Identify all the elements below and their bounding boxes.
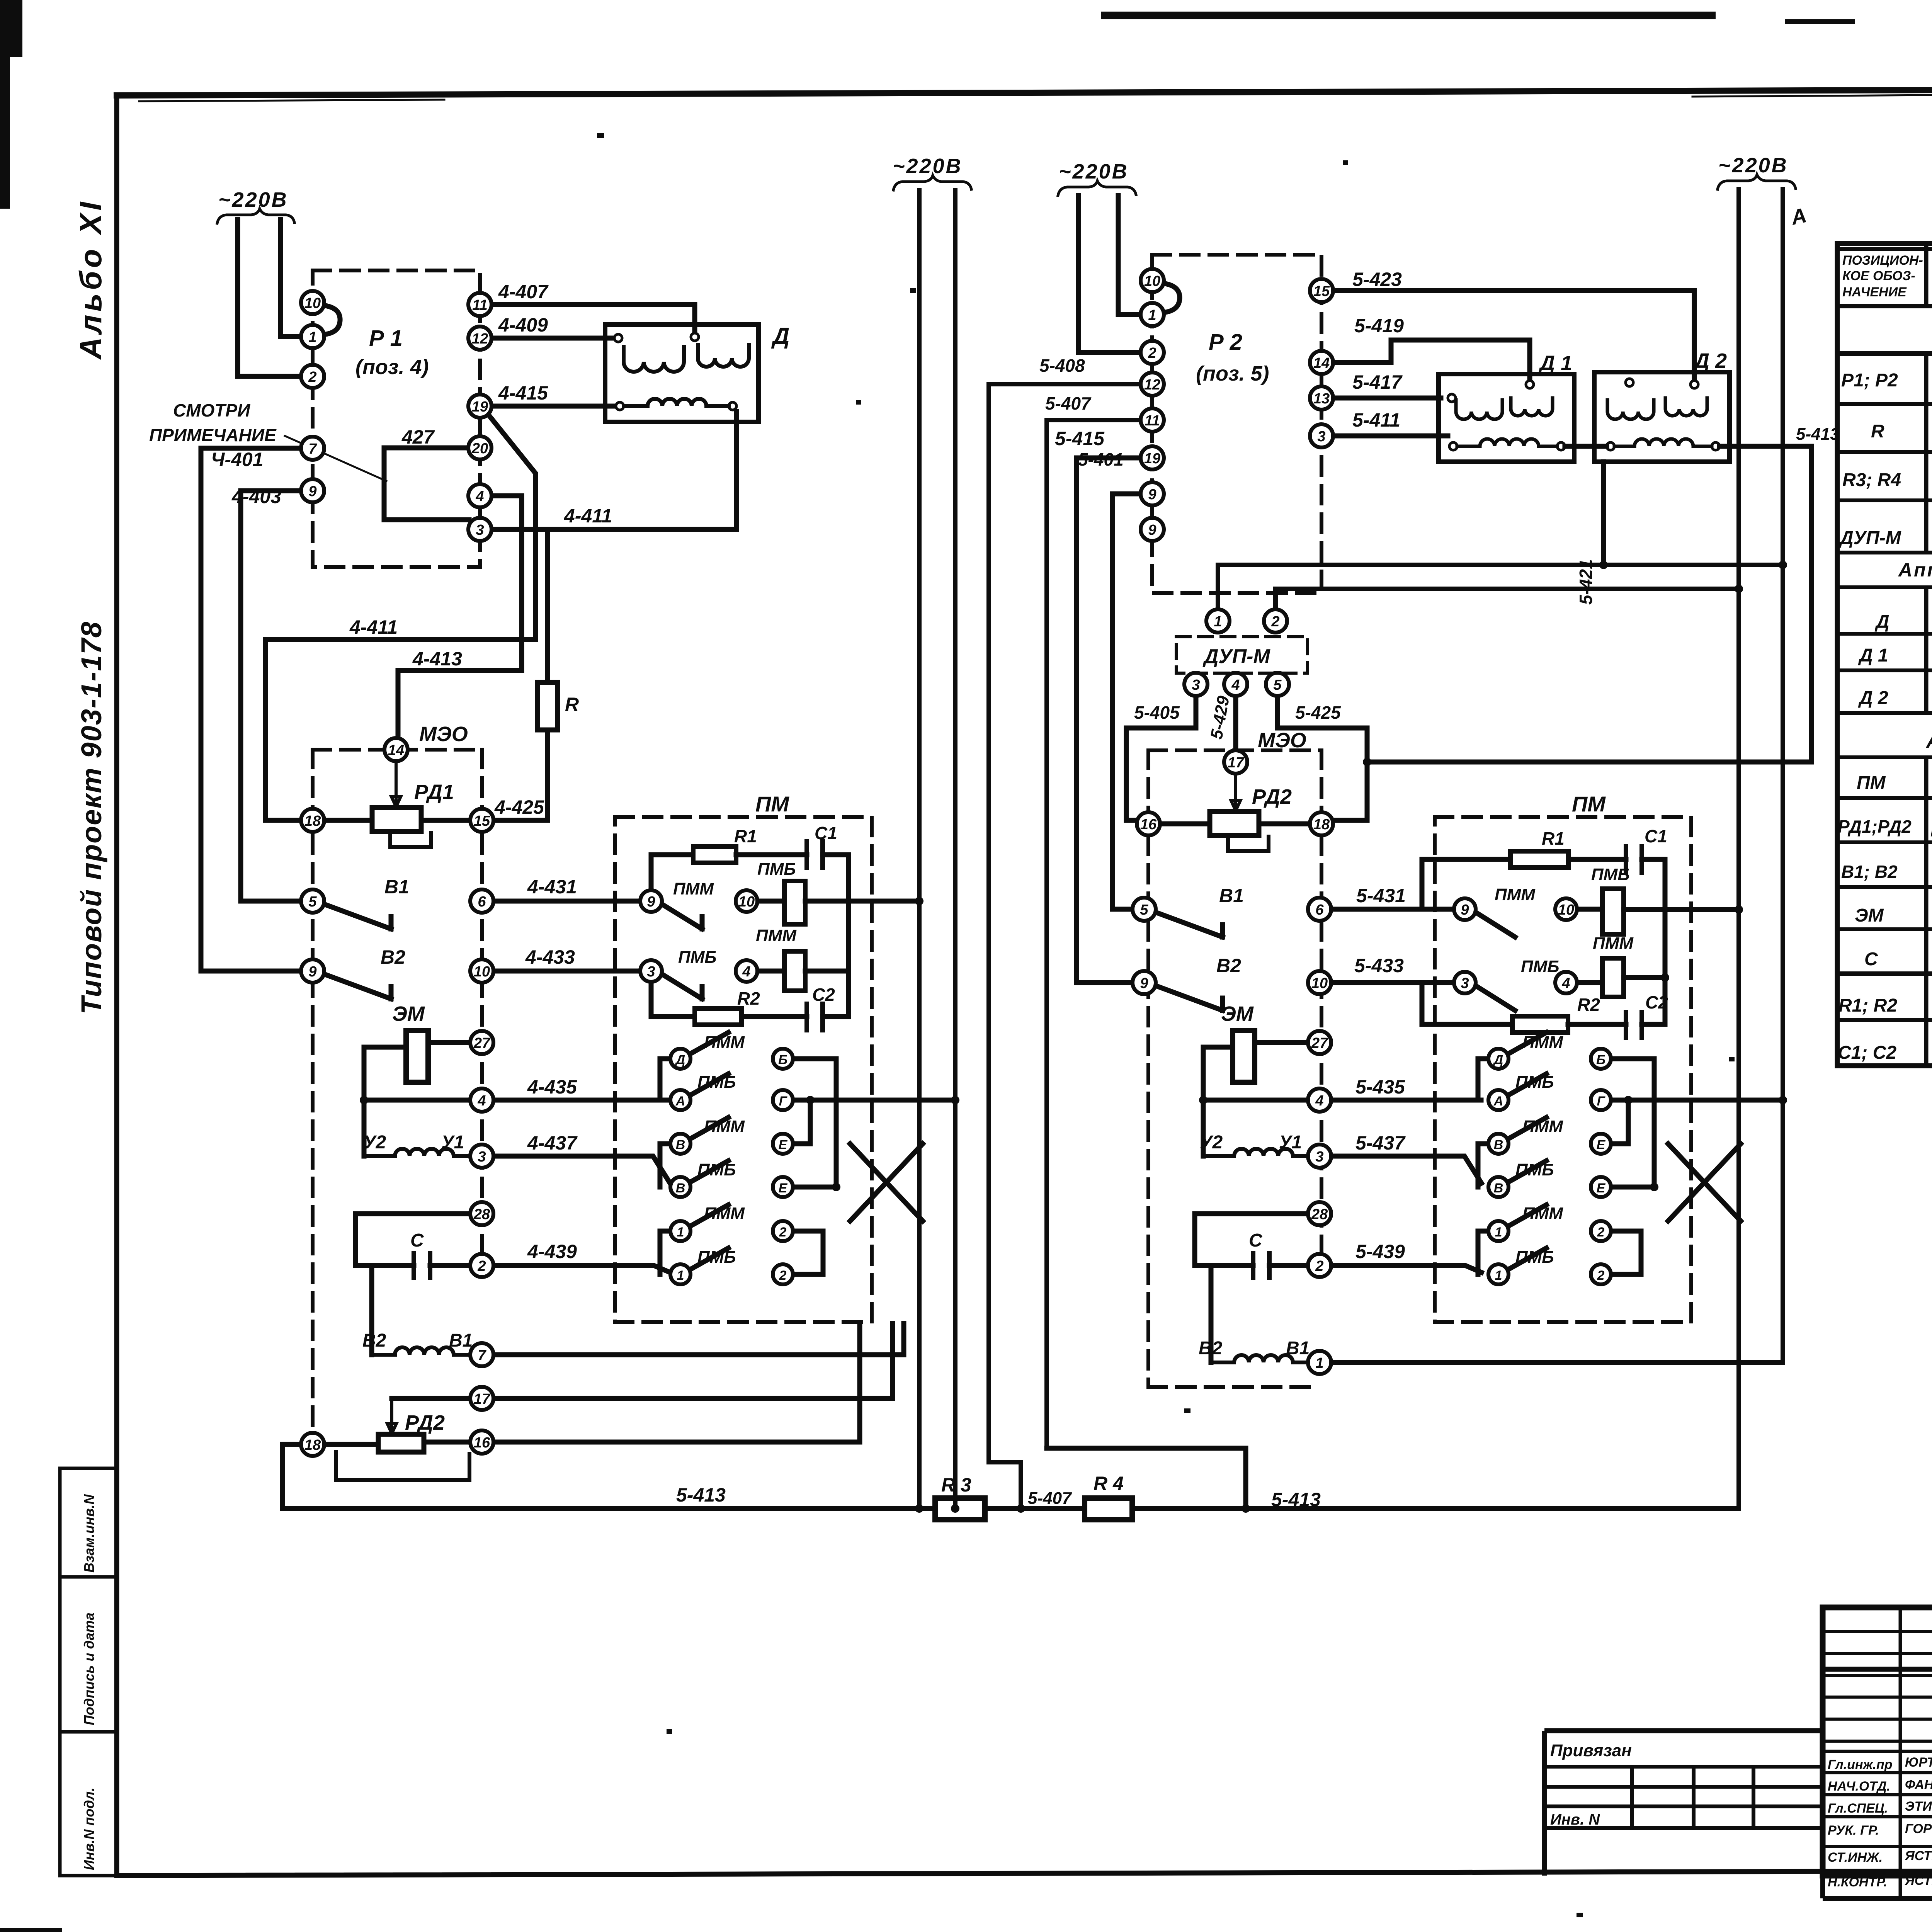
svg-text:ПМБ: ПМБ [697, 1073, 736, 1092]
svg-text:В1: В1 [384, 876, 409, 898]
svg-text:5-411: 5-411 [1352, 409, 1400, 431]
wire C2 right [823, 1014, 849, 1019]
wire 4-409 [492, 336, 615, 341]
svg-text:9: 9 [308, 964, 316, 980]
wire E2 right [793, 1185, 836, 1190]
wire block2 right [805, 969, 849, 974]
svg-text:5-421: 5-421 [1576, 559, 1596, 605]
junction EM loop / 4-435 [360, 1096, 368, 1104]
junction 5-421 [1599, 561, 1608, 569]
coil U2-U1 [364, 1149, 470, 1156]
svg-text:Аппаратура по месту: Аппаратура по месту [1925, 730, 1932, 752]
wire terminal 16 row [493, 1323, 860, 1442]
svg-text:10: 10 [474, 964, 490, 980]
terminal 5 [301, 889, 324, 913]
signature rows [1823, 1751, 1932, 1847]
D bottom coil [624, 399, 729, 406]
svg-text:Альбо XI: Альбо XI [73, 199, 108, 360]
contact row 1-2 upper blade [690, 1205, 728, 1226]
svg-text:1: 1 [1495, 1268, 1502, 1283]
contact E1 [773, 1134, 793, 1154]
switch V1r blade [1156, 912, 1223, 937]
contact E2 [773, 1177, 793, 1197]
coil U2-U1 right [1203, 1149, 1308, 1156]
left 220V supply label [218, 188, 288, 211]
svg-text:9: 9 [308, 483, 316, 500]
svg-text:НАЧЕНИЕ: НАЧЕНИЕ [1842, 285, 1907, 299]
wire contact 10 to block [757, 899, 784, 904]
junction block2r [1661, 973, 1669, 982]
terminal 3r [1308, 1145, 1331, 1168]
svg-text:14: 14 [1313, 355, 1330, 371]
terminal 9b [301, 959, 324, 983]
starter PM right dashed box [1435, 817, 1691, 1322]
RD2r wiper wire [1231, 774, 1240, 811]
svg-text:Д: Д [1874, 612, 1889, 632]
wire 1u to 1l [660, 1231, 670, 1274]
MEO dashed top [313, 748, 482, 752]
regulator P2 dashed box [1152, 255, 1321, 593]
coil V2-V1 left stub [355, 1265, 372, 1355]
svg-text:ЯСТРЕБОВА: ЯСТРЕБОВА [1905, 1873, 1932, 1888]
svg-text:10: 10 [1311, 975, 1328, 992]
P2 220V brace [1058, 181, 1136, 196]
svg-text:1: 1 [677, 1225, 684, 1240]
svg-text:4-439: 4-439 [527, 1241, 577, 1262]
terminal 4b [470, 1088, 493, 1112]
wire contact 4 to block [759, 969, 784, 974]
svg-text:3: 3 [478, 1149, 486, 1165]
wire Br right [1611, 1059, 1654, 1187]
wire 4-401 [201, 448, 301, 971]
junction bus B [1779, 561, 1787, 569]
wire 220V to terminal 1 of P2 [1118, 196, 1141, 315]
wire 4-439 right [493, 1265, 670, 1272]
svg-text:6: 6 [1315, 902, 1324, 918]
contact 2lr [1591, 1264, 1611, 1284]
wire 5-439 right [1331, 1265, 1481, 1272]
svg-text:НАЧ.ОТД.: НАЧ.ОТД. [1828, 1779, 1890, 1794]
capacitor C1 right [1626, 846, 1642, 872]
wire 2u right tie [793, 1231, 823, 1274]
svg-text:5-425: 5-425 [1295, 702, 1341, 723]
svg-text:28: 28 [1311, 1206, 1328, 1223]
svg-text:ПММ: ПММ [1522, 1117, 1563, 1136]
terminal 10b [470, 959, 493, 983]
contact V1 [670, 1134, 690, 1154]
contact 1l [670, 1264, 690, 1284]
wire 5-435 right [1331, 1098, 1481, 1103]
svg-text:С1: С1 [1645, 826, 1667, 846]
terminal 6 [470, 889, 493, 913]
position indicator DUP-M dashed box [1176, 637, 1308, 673]
wire 2ur right [1611, 1231, 1641, 1274]
right 220V supply label [1718, 154, 1788, 177]
svg-text:5-415: 5-415 [1055, 428, 1105, 449]
svg-text:10: 10 [1144, 273, 1160, 289]
bus 220V mid right [953, 190, 957, 1509]
junction B-E2 tie [832, 1183, 840, 1191]
PM terminal 10 [736, 890, 757, 912]
terminal 3 [468, 518, 492, 541]
terminal 1 P2 [1141, 303, 1164, 326]
wire 5-433 [1331, 980, 1454, 985]
svg-text:2: 2 [1597, 1268, 1605, 1283]
terminal 5r [1133, 898, 1156, 921]
svg-text:5-413: 5-413 [1271, 1489, 1321, 1510]
wire contact 10r to block [1577, 907, 1602, 912]
wire block2r right [1624, 975, 1665, 980]
wire 5-411 [1333, 434, 1448, 439]
svg-text:ПММ: ПММ [756, 926, 797, 945]
wire RD2 to terminal 16 [424, 1440, 470, 1445]
terminal 1 [301, 325, 324, 348]
svg-text:3: 3 [1315, 1149, 1323, 1165]
D2 pin top left [1626, 379, 1633, 386]
svg-text:Аппаратура на стативе местных: Аппаратура на стативе местных приборов [1898, 559, 1932, 581]
potentiometer RD1 [372, 808, 421, 832]
capacitor C branch left [355, 1214, 470, 1265]
D pin left [614, 334, 622, 342]
wire 2lr right [1611, 1272, 1641, 1277]
PMr aux contact block 1 [1602, 889, 1624, 934]
terminal 16r [1137, 812, 1160, 835]
svg-text:В1: В1 [1219, 885, 1244, 906]
wire 4-435 left [364, 1098, 470, 1103]
resistor R2 right [1512, 1016, 1568, 1032]
svg-text:А: А [675, 1094, 685, 1109]
svg-text:ПМБ: ПМБ [1515, 1073, 1554, 1092]
contact row V-E1 blade [690, 1117, 728, 1139]
bus 220V right phase A [1736, 189, 1741, 589]
junction G-row bus [951, 1096, 959, 1104]
electromagnet EM coil body [406, 1031, 428, 1082]
wire 4-415 [492, 404, 617, 409]
right 220V brace [1718, 175, 1796, 189]
svg-text:5: 5 [1140, 902, 1148, 918]
wire terminal 18b to RD2 [324, 1442, 378, 1447]
D coil 2 [698, 345, 749, 367]
wire 5-407 riser [1047, 1448, 1246, 1509]
wire 5-413 from D2 [1367, 446, 1811, 762]
svg-text:ПМБ: ПМБ [757, 860, 796, 879]
svg-text:ЭТИНГЕН: ЭТИНГЕН [1905, 1799, 1932, 1814]
terminal 14 P2 [1310, 351, 1333, 374]
svg-text:А: А [1493, 1094, 1503, 1109]
contact V2 [670, 1177, 690, 1197]
wire C2r right [1642, 1022, 1665, 1027]
contact row 1-2 upper r blade [1508, 1205, 1546, 1226]
svg-text:ПММ: ПММ [1495, 885, 1536, 904]
contact E1r [1591, 1134, 1611, 1154]
PMr terminal 10 [1555, 898, 1577, 920]
svg-text:2: 2 [1271, 614, 1279, 630]
switch V2 blade [324, 974, 391, 999]
jumper terminal 10 to 1 of P2 [1163, 283, 1180, 313]
svg-text:СМОТРИ: СМОТРИ [173, 400, 250, 420]
wire terminal 16r to pot [1160, 821, 1210, 827]
bus 220V mid left [917, 190, 922, 1509]
svg-text:Д 1: Д 1 [1858, 645, 1888, 666]
svg-text:ПМБ: ПМБ [1515, 1248, 1554, 1267]
svg-text:5-423: 5-423 [1352, 269, 1402, 290]
node A label [1788, 204, 1809, 230]
contact Br [1591, 1049, 1611, 1069]
wire D to A row [660, 1059, 670, 1100]
junction 5-413 riser [1735, 585, 1743, 593]
wire pot to terminal 18r [1259, 821, 1310, 827]
svg-text:12: 12 [472, 331, 488, 347]
svg-text:13: 13 [1313, 391, 1330, 407]
DUP-M terminal 4 [1224, 673, 1247, 696]
svg-text:3: 3 [1192, 677, 1200, 693]
svg-text:ЭМ: ЭМ [1855, 905, 1884, 926]
terminal 1r [1308, 1351, 1331, 1374]
PM contact row 3-4 blade [662, 974, 702, 999]
svg-text:1: 1 [308, 329, 316, 345]
terminal 12 [468, 327, 492, 350]
svg-text:Д: Д [771, 323, 789, 349]
svg-text:ЯСТРЕБОВА: ЯСТРЕБОВА [1905, 1849, 1932, 1863]
left circuit terminal circles [301, 291, 793, 1456]
wire 4-407 [492, 304, 695, 332]
svg-text:27: 27 [473, 1035, 491, 1051]
svg-text:Подпись и дата: Подпись и дата [81, 1612, 97, 1725]
terminal 28 [470, 1202, 493, 1225]
svg-text:В: В [676, 1181, 685, 1196]
wire 5-423 [1333, 291, 1694, 381]
contact Dr [1488, 1049, 1509, 1069]
wire terminal 18b down [282, 1444, 301, 1509]
contact 1lr [1488, 1264, 1509, 1284]
resistor R1 right [1510, 851, 1568, 867]
svg-text:Гл.инж.пр: Гл.инж.пр [1828, 1757, 1893, 1772]
PM terminal 9 [640, 890, 662, 912]
resistor R4 [1085, 1498, 1132, 1520]
draft gauge D1 box [1439, 374, 1574, 462]
MEO dashed boundary left [311, 750, 315, 1445]
svg-text:У1: У1 [1279, 1132, 1302, 1153]
svg-text:ПММ: ПММ [704, 1117, 745, 1136]
svg-text:5-419: 5-419 [1354, 315, 1404, 337]
junction R4 right [1242, 1504, 1250, 1513]
svg-text:С: С [1249, 1230, 1263, 1251]
svg-text:Е: Е [779, 1181, 788, 1196]
contact row 1-2 lower r blade [1508, 1248, 1546, 1270]
junction EMr loop [1199, 1096, 1207, 1104]
wire Dr tie [1478, 1059, 1488, 1100]
svg-text:~220В: ~220В [1059, 160, 1129, 183]
svg-text:10: 10 [738, 894, 755, 910]
R2r branch stub [1422, 983, 1512, 1024]
svg-text:4-411: 4-411 [564, 505, 612, 527]
svg-text:R2: R2 [1577, 995, 1600, 1015]
wire 220V phase B to terminal 1 [281, 219, 301, 337]
svg-text:5-417: 5-417 [1352, 371, 1403, 393]
terminal 20 [468, 436, 492, 459]
bus 220V right phase B [1331, 189, 1783, 1362]
svg-text:9: 9 [647, 894, 655, 910]
svg-text:1: 1 [677, 1268, 684, 1283]
svg-text:РД1: РД1 [414, 781, 454, 804]
resistor R [537, 682, 558, 730]
svg-text:Е: Е [1597, 1181, 1606, 1196]
svg-text:С2: С2 [1645, 992, 1668, 1012]
terminal 14 [384, 738, 408, 761]
svg-text:5-439: 5-439 [1355, 1241, 1405, 1262]
terminal 19 [468, 395, 492, 418]
svg-text:5: 5 [1273, 677, 1282, 693]
svg-text:ПМБ: ПМБ [1515, 1160, 1554, 1179]
right tie [846, 855, 851, 1017]
D1 coil 2 [1511, 398, 1553, 416]
wire 4-437 right [493, 1156, 670, 1183]
svg-text:4-431: 4-431 [527, 876, 577, 898]
right circuit terminal circles [1133, 269, 1611, 1374]
D coil 1 [624, 347, 684, 372]
svg-text:1: 1 [1495, 1225, 1502, 1240]
svg-text:ПММ: ПММ [1522, 1204, 1563, 1223]
svg-text:ПММ: ПММ [704, 1033, 745, 1052]
D1 coil 1 [1456, 400, 1502, 419]
svg-text:ГОРНОСТАЕВ: ГОРНОСТАЕВ [1905, 1821, 1932, 1836]
wire 5-415 [1077, 458, 1141, 983]
svg-text:Г: Г [1597, 1094, 1606, 1109]
contact V2r [1488, 1177, 1509, 1197]
svg-text:18: 18 [304, 813, 321, 829]
wire terminal 17 row [392, 1323, 893, 1398]
terminal 10r [1308, 971, 1331, 994]
svg-text:Е: Е [779, 1138, 788, 1152]
wire 5-435 left [1203, 1098, 1308, 1103]
potentiometer RD2 right [1210, 811, 1259, 835]
DUP-M terminal 1 [1206, 609, 1230, 633]
D pin top center [691, 333, 699, 341]
wire 4-425 [493, 818, 548, 823]
svg-text:В1: В1 [1286, 1338, 1310, 1359]
tie C1r-C2r [1663, 859, 1668, 1024]
capacitor Cr wire right [1269, 1263, 1308, 1268]
capacitor Cr [1253, 1253, 1269, 1278]
left circuit labels [149, 281, 1321, 1510]
terminal 15 [470, 809, 493, 832]
svg-text:11: 11 [472, 297, 487, 313]
svg-text:19: 19 [1144, 451, 1160, 467]
svg-text:R2: R2 [737, 988, 760, 1009]
wire 5-401 [1112, 494, 1141, 909]
wire 220V phase A to terminal 2 [238, 219, 301, 376]
svg-text:В: В [1494, 1138, 1503, 1152]
svg-text:5-433: 5-433 [1354, 955, 1404, 976]
terminal 12 P2 [1141, 372, 1164, 396]
contact B [773, 1049, 793, 1069]
wire Gr right [1611, 1098, 1783, 1103]
svg-text:Типовой проект 903-1-178: Типовой проект 903-1-178 [75, 621, 107, 1014]
D2 bottom coil [1614, 439, 1712, 446]
svg-text:В2: В2 [381, 946, 405, 968]
terminal 3b [470, 1145, 493, 1168]
wire 4-403 [241, 491, 301, 901]
terminal 6r [1308, 898, 1331, 921]
svg-text:Взам.инв.N: Взам.инв.N [81, 1494, 97, 1573]
wire 5-407 [1047, 420, 1141, 1448]
svg-text:С: С [1864, 949, 1878, 969]
wire 220V to terminal 2 of P2 [1078, 196, 1141, 352]
contact D [670, 1049, 690, 1069]
svg-text:ПОЗИЦИОН-: ПОЗИЦИОН- [1842, 253, 1923, 268]
D1 pin left [1448, 394, 1456, 402]
RD1 wiper wire [391, 761, 401, 807]
contact 1ur [1488, 1221, 1509, 1241]
svg-text:20: 20 [471, 440, 488, 457]
wire D1 to D2 bottom [1565, 444, 1607, 449]
wire 5-419 [1333, 340, 1530, 381]
svg-text:R3; R4: R3; R4 [1842, 470, 1901, 490]
wire 5-437 right [1331, 1156, 1481, 1183]
svg-text:ПМБ: ПМБ [697, 1248, 736, 1267]
svg-text:9: 9 [1148, 486, 1156, 503]
svg-text:1: 1 [1148, 307, 1156, 323]
RD1 bracket [390, 832, 431, 847]
terminal 17 [470, 1387, 493, 1410]
svg-text:4-435: 4-435 [527, 1076, 577, 1098]
wire R1 to C1 [736, 852, 807, 857]
wire EMr to terminal 27 [1255, 1040, 1308, 1045]
terminal 2 P2 [1141, 341, 1164, 364]
svg-text:Д 1: Д 1 [1538, 352, 1572, 375]
D1 bottom pins [1449, 442, 1457, 450]
mid 220V brace [893, 175, 971, 190]
svg-text:R1; R2: R1; R2 [1838, 995, 1897, 1016]
terminal 3 P2 [1310, 424, 1333, 447]
wire E1 up tie [793, 1100, 810, 1144]
svg-text:Д 2: Д 2 [1858, 688, 1888, 708]
contact 2ur [1591, 1221, 1611, 1241]
svg-text:18: 18 [1313, 816, 1330, 833]
svg-text:5-435: 5-435 [1355, 1076, 1405, 1098]
junction block1 bus [915, 897, 923, 905]
potentiometer RD2 [378, 1434, 424, 1452]
svg-text:9: 9 [1140, 975, 1148, 992]
svg-text:5-408: 5-408 [1039, 355, 1085, 376]
PMr contact row 3-4 blade [1476, 986, 1515, 1010]
wire 5-405 [1126, 696, 1196, 820]
junction block1r bus [1735, 905, 1743, 914]
D1 pin top [1526, 381, 1534, 388]
R2 branch stub [651, 983, 695, 1017]
wire 5-431 [1331, 907, 1454, 912]
svg-text:3: 3 [1461, 975, 1469, 992]
svg-text:Привязан: Привязан [1550, 1741, 1632, 1760]
wire R1r to C1r [1568, 857, 1626, 862]
wire block1 right to bus [805, 899, 919, 904]
wire EM to terminal 27 [428, 1040, 470, 1045]
svg-text:12: 12 [1144, 377, 1160, 393]
svg-text:5-437: 5-437 [1355, 1132, 1406, 1154]
svg-text:4-411: 4-411 [349, 616, 398, 638]
capacitor C2 [807, 1004, 823, 1030]
PM terminal 3 [640, 960, 662, 982]
svg-text:R 4: R 4 [1094, 1473, 1124, 1494]
svg-text:4-415: 4-415 [498, 382, 548, 404]
coil V2-V1 right [1211, 1355, 1308, 1362]
svg-text:ПМ: ПМ [1857, 773, 1886, 793]
svg-text:17: 17 [474, 1391, 491, 1407]
svg-text:427: 427 [401, 426, 435, 448]
wire V1r tie [1478, 1144, 1488, 1187]
svg-text:5-407: 5-407 [1045, 393, 1092, 413]
right circuit labels [1039, 269, 1840, 1359]
